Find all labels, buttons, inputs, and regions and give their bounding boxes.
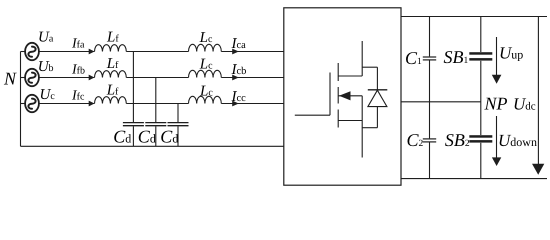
svg-text:C1: C1 [405, 48, 422, 68]
svg-text:SB2: SB2 [445, 130, 470, 150]
capacitor Cd3 [160, 104, 188, 147]
wire diode bottom link [362, 127, 377, 129]
capacitor C2 [407, 130, 437, 179]
wire phase b: Lf to Lc [126, 77, 188, 79]
svg-text:NP: NP [484, 94, 508, 114]
capacitor Cd1 [113, 52, 144, 147]
wire diode top link [362, 66, 377, 68]
svg-text:Lc: Lc [199, 30, 213, 46]
arrow U_dc full DC link [532, 17, 544, 175]
svg-text:Ub: Ub [38, 59, 54, 75]
diode D1 [368, 67, 388, 128]
wire phase c: Lc to converter [221, 103, 284, 105]
battery SB1 [444, 17, 493, 136]
svg-text:Lf: Lf [106, 56, 119, 72]
wire phase a: source to Lf [39, 51, 95, 53]
svg-text:Lf: Lf [106, 82, 119, 98]
transistor Q1 drain stub [338, 75, 362, 77]
svg-text:Cd: Cd [138, 126, 156, 146]
wire phase c: Lf to Lc [126, 103, 188, 105]
svg-text:Icc: Icc [231, 89, 247, 105]
arrow U_up [492, 37, 523, 84]
current arrow Ifb [71, 62, 95, 80]
inductor Lc phase b [189, 56, 222, 77]
wire phase a: Lf to Lc [126, 51, 188, 53]
svg-text:N: N [3, 69, 17, 89]
svg-text:Ua: Ua [38, 30, 54, 46]
current arrow Ifc [71, 89, 95, 107]
wire phase c: source to Lf [39, 103, 95, 105]
svg-text:Icb: Icb [231, 62, 247, 78]
svg-text:Cd: Cd [160, 126, 178, 146]
current arrow Ica [231, 36, 247, 55]
transistor Q1 body stub with arrow [338, 91, 362, 100]
wire phase a: Lc to converter [221, 51, 284, 53]
inductor Lf phase c [95, 82, 127, 103]
transistor Q1 source lead [361, 96, 363, 158]
wire DC bottom bus [401, 178, 547, 180]
transistor Q1 drain lead [361, 41, 363, 76]
svg-text:Uup: Uup [499, 44, 523, 63]
AC source Uc [21, 87, 56, 112]
svg-text:Cd: Cd [113, 126, 131, 146]
current arrow Icb [231, 62, 247, 80]
wire bottom filter bus [21, 145, 285, 147]
wire neutral bus vertical [20, 52, 22, 147]
svg-text:Ica: Ica [231, 36, 247, 52]
wire DC top bus [401, 16, 547, 18]
arrow U_down [492, 116, 537, 166]
inductor Lc phase a [189, 30, 222, 52]
capacitor Cd2 [138, 78, 167, 147]
svg-text:Udc: Udc [513, 95, 536, 114]
wire NP bus [401, 101, 481, 103]
transistor Q1 gate bar [329, 73, 331, 116]
svg-text:Lf: Lf [106, 29, 119, 45]
transistor Q1 gate lead [295, 114, 330, 116]
battery SB2 [445, 130, 492, 179]
inductor Lf phase b [95, 56, 127, 78]
capacitor C1 [405, 17, 436, 139]
wire phase b: Lc to converter [221, 77, 284, 79]
transistor Q1 source stub [338, 120, 362, 122]
current arrow Ifa [71, 36, 95, 54]
svg-text:Ifa: Ifa [71, 36, 85, 51]
inductor Lf phase a [95, 29, 127, 51]
inductor Lc phase c [189, 83, 222, 103]
svg-text:Ifb: Ifb [71, 62, 85, 77]
AC source Ub [21, 59, 54, 86]
svg-text:Uc: Uc [40, 87, 56, 103]
svg-text:Lc: Lc [199, 56, 213, 72]
svg-text:Ifc: Ifc [71, 89, 85, 104]
current arrow Icc [231, 89, 247, 107]
transistor Q1 channel segments [337, 63, 339, 128]
svg-text:SB1: SB1 [444, 47, 469, 67]
AC source Ua [21, 30, 54, 61]
svg-text:Lc: Lc [199, 83, 213, 99]
svg-text:Udown: Udown [498, 131, 537, 150]
svg-text:C2: C2 [407, 130, 424, 150]
wire phase b: source to Lf [39, 77, 95, 79]
converter box [284, 8, 401, 185]
